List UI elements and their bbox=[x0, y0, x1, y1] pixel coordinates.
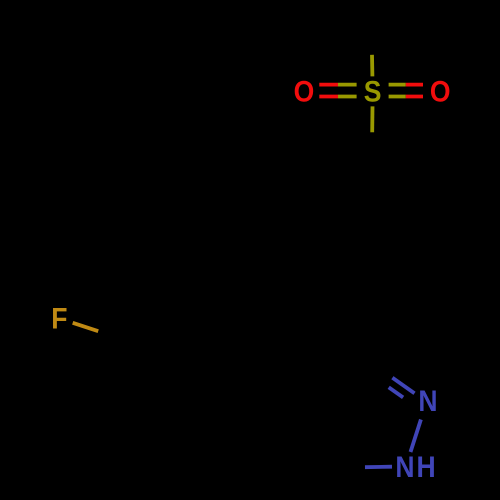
bond ring2 edge 3 (carbon-carbon) bbox=[239, 316, 246, 349]
svg-text:O: O bbox=[430, 75, 451, 108]
bond ring1 C5r-C6 (carbon-carbon) bbox=[310, 226, 314, 260]
bond ring2 edge 6 (carbon-carbon) bbox=[131, 373, 138, 406]
svg-text:S: S bbox=[364, 75, 382, 108]
bond C3=N2 (pyrazole double bond, carbon half black, nitrogen half blue) bbox=[370, 362, 392, 378]
svg-text:N: N bbox=[395, 451, 414, 484]
svg-text:O: O bbox=[294, 75, 315, 108]
bond F-ring2 (gold half near F, black half near carbon) bbox=[73, 323, 99, 331]
bond ring2 edge 4 (carbon-carbon) bbox=[228, 382, 253, 405]
bond C4-ring2 (pyrazole to fluorophenyl) bbox=[284, 393, 315, 403]
bond ring1-C3 (phenyl to pyrazole) bbox=[369, 294, 373, 328]
ring1 aromatic inner lines bbox=[378, 174, 396, 185]
bond ring1 C4r-C5r (carbon-carbon) bbox=[342, 277, 371, 294]
bond ring1 C6-C1 (carbon-carbon) bbox=[313, 175, 343, 192]
bond ring1 C3r-C4r (carbon-carbon) bbox=[400, 261, 430, 278]
bond ring1 C1-C2 (carbon-carbon) bbox=[372, 158, 401, 175]
bond ring2 edge 2 (carbon-carbon) bbox=[175, 295, 207, 306]
ring2 aromatic inner lines bbox=[140, 325, 156, 339]
bond C5=C4 inner line bbox=[336, 432, 343, 453]
bond C3=N2 inner line bbox=[374, 377, 388, 387]
bond S-C1 (sulfur to phenyl ring 1 top) bbox=[370, 106, 374, 132]
svg-text:F: F bbox=[51, 302, 67, 335]
bond S=O right (double bond, olive half near S, red half near O) bbox=[389, 83, 406, 87]
bond ring2 edge 5 (carbon-carbon) bbox=[170, 417, 202, 428]
bond N2-N1 (nitrogen-nitrogen, all blue) bbox=[411, 420, 421, 453]
bond ring2 edge 1 (carbon-carbon) bbox=[124, 317, 149, 340]
bond CH3-S (methyl to sulfur, upper half carbon-black, lower half olive) bbox=[370, 33, 374, 55]
bond C5=C4 (pyrazole double bond carbon-carbon) bbox=[327, 435, 338, 467]
svg-text:N: N bbox=[418, 385, 437, 418]
bond N1-C5 (NH to carbon, blue half near N) bbox=[365, 465, 392, 469]
svg-text:H: H bbox=[417, 451, 436, 484]
bond S=O left (double bond, red half near O, olive half near S) bbox=[319, 83, 338, 87]
bond C4-C3 (pyrazole) bbox=[316, 383, 343, 404]
bond ring1 C2-C3r (carbon-carbon) bbox=[428, 193, 432, 227]
